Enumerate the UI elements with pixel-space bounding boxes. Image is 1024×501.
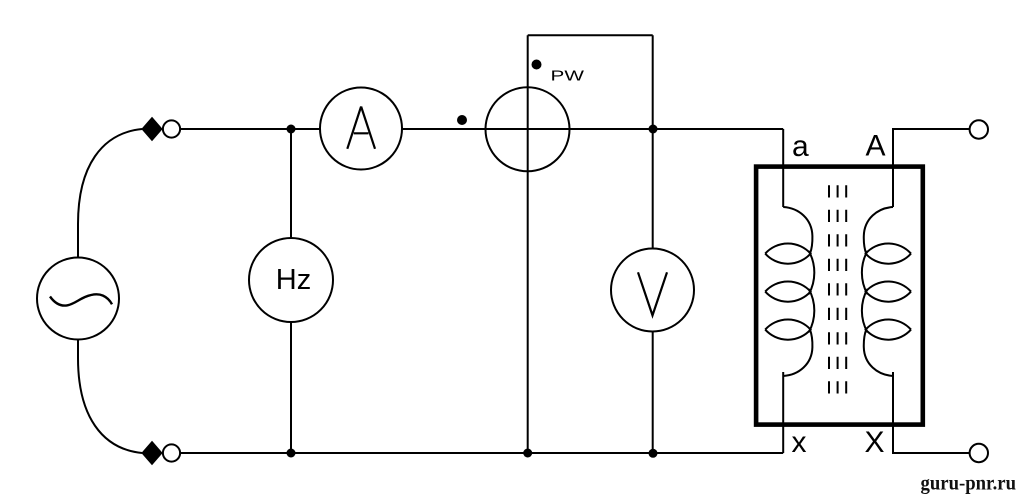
terminal diamond lower-left — [142, 442, 162, 465]
terminal circle lower-right — [970, 444, 988, 462]
polarity dot of wattmeter voltage coil — [532, 60, 542, 70]
node junction bottom at voltmeter branch — [649, 449, 658, 458]
core lamination dashed line 2 — [837, 185, 839, 393]
wire: top main wire from left terminal to a-lead — [181, 128, 783, 130]
node junction bottom at Hz branch — [287, 449, 296, 458]
frequency meter Hz — [249, 238, 333, 322]
terminal circle lower-left — [163, 444, 180, 461]
svg-text:guru-pnr.ru: guru-pnr.ru — [921, 473, 1017, 495]
wattmeter PW circle — [486, 87, 570, 171]
sine symbol inside source — [50, 294, 112, 305]
secondary winding (right, mirrored) — [862, 207, 911, 376]
svg-text:A: A — [866, 130, 886, 163]
letter A of ammeter — [347, 107, 375, 149]
wire: voltmeter upper lead — [652, 129, 654, 249]
primary winding (left) — [765, 207, 814, 376]
core lamination dashed line 1 — [828, 185, 830, 393]
ammeter A — [320, 88, 402, 170]
wire: Hz meter lower lead — [290, 322, 292, 453]
terminal circle upper-left — [163, 120, 180, 137]
wire: voltmeter lower lead — [652, 332, 654, 454]
svg-text:a: a — [792, 130, 809, 163]
core lamination dashed line 3 — [845, 185, 847, 393]
wire: wattmeter voltage-coil top link — [528, 34, 653, 36]
polarity dot of wattmeter current coil — [457, 115, 467, 125]
generator G1 (AC source) — [37, 258, 119, 340]
node junction bottom at wattmeter branch — [523, 449, 532, 458]
terminal diamond upper-left — [142, 118, 162, 141]
wire: wattmeter voltage-coil left branch (vertical through circle down to bottom wire) — [527, 35, 529, 453]
wire: a-lead (primary top) — [782, 129, 784, 207]
wire: curved lead from source bottom to lower-left terminal — [78, 340, 142, 454]
transformer T1 core box (thick frame) — [756, 167, 923, 425]
letter V of voltmeter — [638, 272, 667, 315]
svg-text:X: X — [865, 426, 885, 459]
wire: wattmeter voltage-coil right branch — [652, 35, 654, 129]
svg-text:Hz: Hz — [276, 264, 311, 296]
svg-text:PW: PW — [551, 68, 586, 85]
voltmeter V — [611, 249, 694, 332]
wire: X-lead (secondary bottom) with run to right terminal — [893, 372, 970, 453]
wire: A-lead (secondary top) with run to right terminal — [893, 129, 970, 207]
node junction top at voltmeter branch — [649, 125, 658, 134]
terminal circle upper-right — [970, 120, 988, 138]
wire: curved lead from source top to upper-left terminal — [78, 129, 142, 258]
svg-text:x: x — [792, 426, 807, 459]
node junction top at Hz branch — [287, 125, 296, 134]
wire: x-lead (primary bottom) — [782, 372, 784, 453]
wire: Hz meter upper lead — [290, 129, 292, 238]
wire: bottom main wire from left terminal to x-lead — [181, 452, 783, 454]
